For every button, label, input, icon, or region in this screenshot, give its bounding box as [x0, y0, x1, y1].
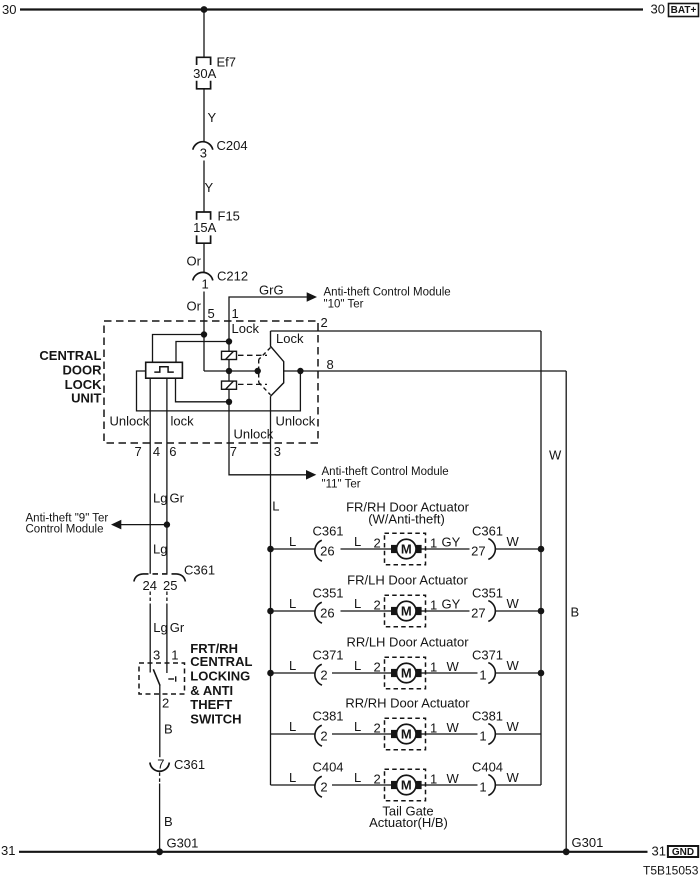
wire: [426, 733, 478, 735]
svg-text:Control Module: Control Module: [26, 524, 104, 536]
wire Lg below C361: [149, 592, 151, 605]
svg-text:26: 26: [320, 543, 334, 558]
note anti-theft module 9: [26, 512, 109, 535]
svg-text:FR/LH Door Actuator: FR/LH Door Actuator: [347, 573, 468, 588]
label Lg: [153, 491, 167, 506]
node: [538, 670, 545, 677]
svg-text:C361: C361: [472, 523, 503, 538]
label 31 left: [1, 843, 15, 858]
svg-text:L: L: [354, 534, 361, 549]
wire: [496, 610, 541, 612]
svg-text:L: L: [289, 770, 296, 785]
svg-text:M: M: [401, 604, 412, 619]
svg-text:L: L: [289, 658, 296, 673]
connector C361 pin 26: [315, 540, 322, 561]
fuse Ef7 30A: [197, 57, 211, 89]
node: [267, 546, 274, 553]
label pin 1: [171, 648, 178, 663]
wire: [332, 733, 385, 735]
svg-text:2: 2: [374, 536, 381, 551]
svg-text:L: L: [354, 658, 361, 673]
bus 30: [20, 8, 643, 10]
label pin 25: [163, 578, 177, 593]
wire pin5: [203, 321, 205, 335]
svg-text:F15: F15: [218, 209, 240, 224]
label 15A: [193, 220, 216, 235]
svg-text:C361: C361: [312, 523, 343, 538]
svg-text:1: 1: [430, 721, 437, 736]
row5 labels: [289, 759, 520, 794]
svg-text:L: L: [354, 719, 361, 734]
wire pin3 L bus: [270, 396, 272, 785]
wire: [271, 672, 315, 674]
svg-text:Gr: Gr: [170, 491, 185, 506]
wire GrG to anti-theft "10": [229, 297, 307, 321]
svg-text:GND: GND: [672, 847, 694, 858]
node: [226, 338, 232, 344]
svg-text:5: 5: [208, 306, 215, 321]
svg-text:L: L: [289, 719, 296, 734]
wire pin4: [149, 378, 151, 574]
label B: [164, 814, 173, 829]
motor RR/LH door actuator: [385, 657, 427, 689]
label C212: [217, 269, 248, 284]
wire: [271, 548, 315, 550]
svg-text:C404: C404: [472, 759, 503, 774]
connector C351 pin 26: [315, 602, 322, 623]
linkage dashes: [238, 355, 267, 384]
wire: [426, 610, 470, 612]
wire: [228, 371, 230, 381]
label G301 left: [167, 836, 199, 851]
label L: [272, 499, 279, 514]
wire: [271, 784, 315, 786]
wire: [176, 378, 230, 402]
svg-text:1: 1: [171, 648, 178, 663]
node: [226, 368, 232, 374]
label Lg: [153, 541, 167, 556]
label G301 right: [572, 835, 604, 850]
label pin 4: [153, 444, 160, 459]
svg-text:2: 2: [321, 315, 328, 330]
svg-text:27: 27: [471, 605, 485, 620]
connector C381 pin 2: [315, 725, 322, 746]
label pin 2: [162, 695, 169, 710]
label B: [164, 721, 173, 736]
connector C204 pin 3: [193, 142, 213, 150]
svg-text:25: 25: [163, 578, 177, 593]
wire: [229, 370, 258, 372]
label 30 left: [2, 2, 16, 17]
svg-text:UNIT: UNIT: [71, 390, 101, 405]
wire: [341, 548, 385, 550]
svg-text:Ef7: Ef7: [217, 55, 237, 70]
wire: [228, 360, 230, 372]
wire: [426, 548, 470, 550]
label Lock: [232, 321, 260, 336]
wire: [426, 784, 478, 786]
wire anti-theft 9 branch: [121, 524, 167, 526]
svg-text:Or: Or: [187, 299, 202, 314]
connector C404 pin 1: [488, 775, 495, 796]
svg-text:3: 3: [200, 146, 207, 161]
title FR/LH door actuator: [347, 573, 468, 588]
connector C212 pin 1: [193, 272, 213, 280]
arrow to anti-theft module 11: [306, 470, 316, 480]
svg-text:Anti-theft Control Module: Anti-theft Control Module: [324, 286, 451, 298]
label Gr: [170, 620, 185, 635]
svg-text:30: 30: [2, 2, 16, 17]
svg-text:RR/RH Door Actuator: RR/RH Door Actuator: [345, 696, 470, 711]
node: [201, 331, 207, 337]
label Lock: [276, 331, 304, 346]
node G301 left: [156, 848, 163, 855]
svg-text:"11" Ter: "11" Ter: [322, 479, 361, 491]
svg-text:M: M: [401, 727, 412, 742]
motor tail gate actuator: [385, 769, 427, 801]
title tail gate actuator: [369, 804, 448, 831]
relay coil lock: [222, 351, 237, 359]
svg-text:L: L: [289, 534, 296, 549]
svg-text:L: L: [272, 499, 279, 514]
label 30A: [193, 66, 216, 81]
node G301 right: [563, 848, 570, 855]
svg-text:Gr: Gr: [170, 620, 185, 635]
svg-text:4: 4: [153, 444, 160, 459]
label pin 1: [232, 306, 239, 321]
wire: [496, 784, 541, 786]
svg-text:3: 3: [153, 648, 160, 663]
label pin 7: [135, 444, 142, 459]
BAT+ tag: [669, 4, 699, 17]
frt/rh central locking switch box: [139, 663, 185, 694]
row4 labels: [289, 708, 520, 743]
switch throw contact: [168, 676, 175, 681]
wire: [271, 610, 315, 612]
wire: [159, 784, 161, 852]
svg-text:T5B15053: T5B15053: [643, 864, 699, 878]
svg-text:27: 27: [471, 543, 485, 558]
svg-text:Lg: Lg: [153, 620, 167, 635]
svg-text:Unlock: Unlock: [110, 414, 150, 429]
svg-text:GrG: GrG: [259, 282, 284, 297]
wire: [153, 335, 205, 363]
bus 31: [19, 851, 648, 853]
wire Gr below C361: [166, 592, 168, 605]
svg-text:C361: C361: [174, 757, 205, 772]
svg-text:2: 2: [320, 728, 327, 743]
row3 labels: [289, 647, 520, 682]
label frt/rh central locking switch: [190, 641, 252, 727]
label W: [549, 448, 562, 463]
label pin 7: [230, 444, 237, 459]
label pin 7: [157, 757, 164, 772]
svg-text:2: 2: [320, 667, 327, 682]
svg-text:& ANTI: & ANTI: [190, 683, 233, 698]
wire pin2 of switch: [159, 685, 161, 757]
svg-text:Y: Y: [208, 110, 217, 125]
connector C361 pin 7: [150, 763, 169, 772]
svg-text:G301: G301: [167, 836, 199, 851]
svg-text:C212: C212: [217, 269, 248, 284]
svg-text:Or: Or: [187, 254, 202, 269]
svg-text:1: 1: [479, 779, 486, 794]
label pin 1: [202, 276, 209, 291]
svg-text:G301: G301: [572, 835, 604, 850]
label Y: [208, 110, 217, 125]
node: [538, 608, 545, 615]
svg-text:31: 31: [1, 843, 15, 858]
svg-text:W: W: [447, 771, 460, 786]
svg-text:1: 1: [430, 598, 437, 613]
label Unlock: [276, 414, 316, 429]
arrow to anti-theft module 10: [307, 292, 317, 302]
title FR/RH door actuator: [346, 499, 469, 526]
svg-text:3: 3: [274, 444, 281, 459]
title RR/RH door actuator: [345, 696, 470, 711]
svg-text:L: L: [354, 770, 361, 785]
svg-text:B: B: [164, 814, 173, 829]
wire: [271, 733, 315, 735]
svg-text:W: W: [507, 770, 520, 785]
svg-text:DOOR: DOOR: [63, 363, 103, 378]
label B: [571, 605, 580, 620]
wire: [228, 342, 230, 352]
wire: [149, 604, 151, 673]
svg-text:(W/Anti-theft): (W/Anti-theft): [368, 512, 445, 527]
svg-text:THEFT: THEFT: [190, 697, 232, 712]
svg-text:30A: 30A: [193, 66, 216, 81]
label F15: [218, 209, 240, 224]
label Unlock: [110, 414, 150, 429]
svg-text:Actuator(H/B): Actuator(H/B): [369, 815, 448, 830]
relay coil unlock: [222, 381, 237, 389]
svg-text:8: 8: [327, 357, 334, 372]
svg-text:Lg: Lg: [153, 541, 167, 556]
switch lever: [153, 669, 160, 685]
label Unlock: [234, 427, 274, 442]
svg-text:CENTRAL: CENTRAL: [39, 348, 101, 363]
note anti-theft module 10: [324, 286, 451, 310]
motor FR/LH door actuator: [385, 595, 427, 627]
connector C381 pin 1: [488, 724, 495, 745]
wire: [203, 161, 205, 213]
label pin 3: [153, 648, 160, 663]
svg-text:1: 1: [430, 660, 437, 675]
svg-text:Unlock: Unlock: [276, 414, 316, 429]
wire: [203, 335, 205, 372]
node: [297, 368, 303, 374]
label 30 right: [651, 2, 665, 17]
node: [226, 399, 232, 405]
title RR/LH door actuator: [346, 634, 469, 649]
row1 labels: [289, 523, 520, 558]
svg-text:2: 2: [162, 695, 169, 710]
wire: [496, 733, 541, 735]
wire: [496, 672, 541, 674]
svg-text:C371: C371: [312, 647, 343, 662]
wire: [341, 610, 385, 612]
svg-text:1: 1: [479, 667, 486, 682]
svg-text:Lock: Lock: [232, 321, 260, 336]
wire: [332, 672, 385, 674]
svg-text:"10" Ter: "10" Ter: [324, 299, 364, 311]
svg-text:24: 24: [143, 578, 157, 593]
switch dashed contour: [259, 348, 271, 395]
label C204: [217, 138, 248, 153]
GND tag: [668, 846, 698, 858]
node: [538, 546, 545, 553]
svg-text:7: 7: [135, 444, 142, 459]
label pin 8: [327, 357, 334, 372]
node: [267, 670, 274, 677]
svg-text:C381: C381: [472, 708, 503, 723]
wire: [426, 672, 478, 674]
svg-text:2: 2: [374, 772, 381, 787]
svg-text:RR/LH Door Actuator: RR/LH Door Actuator: [346, 634, 469, 649]
svg-text:C404: C404: [312, 759, 343, 774]
svg-text:1: 1: [430, 536, 437, 551]
wire B bus: [565, 371, 567, 852]
svg-text:lock: lock: [171, 414, 195, 429]
node contact: [255, 368, 261, 374]
wire: [203, 10, 205, 58]
svg-text:2: 2: [320, 779, 327, 794]
svg-text:26: 26: [320, 605, 334, 620]
svg-text:2: 2: [374, 721, 381, 736]
wire: [166, 604, 168, 673]
svg-text:C351: C351: [312, 585, 343, 600]
label pin 2: [321, 315, 328, 330]
label 31 right: [652, 844, 666, 859]
note anti-theft module 11: [322, 466, 449, 491]
svg-text:M: M: [401, 666, 412, 681]
wire W bus: [540, 331, 542, 785]
label lock: [171, 414, 195, 429]
svg-text:CENTRAL: CENTRAL: [190, 654, 252, 669]
svg-text:30: 30: [651, 2, 665, 17]
svg-text:W: W: [507, 719, 520, 734]
wire: [204, 370, 229, 372]
pulse relay box: [146, 362, 183, 378]
wire: [332, 784, 385, 786]
svg-text:L: L: [354, 596, 361, 611]
svg-text:SWITCH: SWITCH: [190, 711, 241, 726]
svg-text:W: W: [507, 534, 520, 549]
wire pin2 lock line: [271, 330, 542, 332]
label pin 6: [169, 444, 176, 459]
svg-text:Unlock: Unlock: [234, 427, 274, 442]
svg-text:2: 2: [374, 660, 381, 675]
fuse F15 15A: [197, 212, 211, 243]
wire pin1: [228, 321, 230, 342]
svg-text:W: W: [507, 596, 520, 611]
connector C351 pin 27: [488, 601, 495, 622]
svg-text:6: 6: [169, 444, 176, 459]
svg-text:BAT+: BAT+: [671, 5, 697, 16]
svg-text:C204: C204: [217, 138, 248, 153]
svg-text:LOCKING: LOCKING: [190, 669, 250, 684]
label Y: [205, 180, 214, 195]
wire pin6: [166, 378, 168, 574]
svg-text:L: L: [289, 596, 296, 611]
svg-text:W: W: [507, 658, 520, 673]
wire pin7 to anti-theft "11": [229, 402, 306, 475]
svg-text:C381: C381: [312, 708, 343, 723]
svg-text:Lock: Lock: [276, 331, 304, 346]
wire: [496, 548, 541, 550]
node: [164, 521, 170, 527]
wire: [176, 342, 229, 363]
svg-text:M: M: [401, 778, 412, 793]
label C361: [184, 562, 215, 577]
motor RR/RH door actuator: [385, 718, 427, 750]
label Ef7: [217, 55, 237, 70]
svg-text:W: W: [447, 659, 460, 674]
central door lock unit box: [104, 321, 318, 443]
motor FR/RH door actuator: [385, 533, 427, 565]
label GrG: [259, 282, 284, 297]
wire: [203, 292, 205, 322]
svg-text:C371: C371: [472, 647, 503, 662]
wire unlock loop: [137, 371, 301, 411]
arrow to anti-theft module 9: [111, 520, 121, 530]
svg-text:1: 1: [232, 306, 239, 321]
svg-text:15A: 15A: [193, 220, 216, 235]
wire B to ground: [159, 772, 161, 783]
label central door lock unit: [39, 348, 102, 405]
connector C361 pin 27: [488, 539, 495, 560]
svg-text:Y: Y: [205, 180, 214, 195]
label Or: [187, 299, 202, 314]
switch lock-unlock solid contour: [271, 331, 284, 396]
svg-text:1: 1: [202, 276, 209, 291]
connector C404 pin 2: [315, 776, 322, 797]
svg-text:B: B: [164, 721, 173, 736]
wire pin8 line: [284, 370, 567, 372]
label pin 5: [208, 306, 215, 321]
svg-text:Anti-theft "9" Ter: Anti-theft "9" Ter: [26, 512, 109, 524]
label T5B15053: [643, 864, 699, 878]
svg-text:Lg: Lg: [153, 491, 167, 506]
connector C371 pin 1: [488, 663, 495, 684]
connector C361 pins 24 25: [134, 574, 186, 582]
node battery junction: [201, 6, 208, 13]
label Lg: [153, 620, 167, 635]
row2 labels: [289, 585, 520, 620]
svg-text:C351: C351: [472, 585, 503, 600]
label Gr: [170, 491, 185, 506]
svg-text:GY: GY: [442, 597, 461, 612]
svg-text:Anti-theft Control Module: Anti-theft Control Module: [322, 466, 449, 478]
connector C371 pin 2: [315, 664, 322, 685]
svg-text:1: 1: [479, 728, 486, 743]
node: [267, 608, 274, 615]
label pin 3: [200, 146, 207, 161]
svg-text:7: 7: [230, 444, 237, 459]
svg-text:7: 7: [157, 757, 164, 772]
svg-text:31: 31: [652, 844, 666, 859]
label pin 3: [274, 444, 281, 459]
svg-text:B: B: [571, 605, 580, 620]
wire: [203, 89, 205, 142]
svg-text:M: M: [401, 542, 412, 557]
svg-text:W: W: [549, 448, 562, 463]
label pin 24: [143, 578, 157, 593]
wire: [203, 243, 205, 272]
svg-text:1: 1: [430, 772, 437, 787]
svg-text:W: W: [447, 720, 460, 735]
